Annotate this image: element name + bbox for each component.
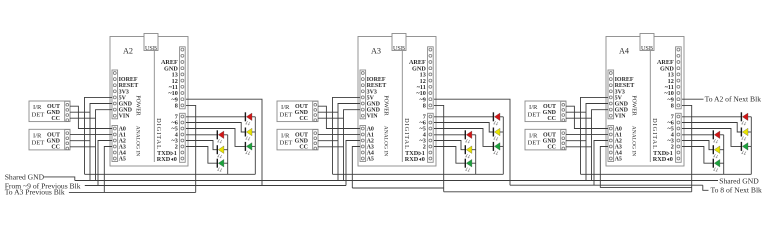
svg-text:8: 8 xyxy=(423,103,426,110)
svg-text:DIGITAL: DIGITAL xyxy=(155,118,162,150)
svg-text:GND: GND xyxy=(47,139,61,145)
svg-text:IOREF: IOREF xyxy=(119,77,138,83)
svg-text:3V3: 3V3 xyxy=(367,89,377,95)
svg-text:VIN: VIN xyxy=(119,114,131,120)
svg-text:3V3: 3V3 xyxy=(119,89,129,95)
svg-text:RESET: RESET xyxy=(367,83,387,89)
svg-text:DET: DET xyxy=(32,111,45,118)
svg-text:OUT: OUT xyxy=(295,133,308,139)
svg-text:USB: USB xyxy=(393,45,405,52)
svg-text:I/R: I/R xyxy=(33,104,42,111)
svg-text:Shared GND: Shared GND xyxy=(5,172,45,181)
svg-text:5V: 5V xyxy=(119,95,127,101)
svg-text:POWER: POWER xyxy=(382,95,388,115)
svg-text:POWER: POWER xyxy=(630,95,636,115)
svg-text:VIN: VIN xyxy=(367,114,379,120)
svg-text:CC: CC xyxy=(51,116,60,122)
svg-text:OUT: OUT xyxy=(47,133,60,139)
svg-text:RXD: RXD xyxy=(157,156,171,163)
svg-text:I/R: I/R xyxy=(529,104,538,111)
svg-text:USB: USB xyxy=(641,45,653,52)
svg-text:I/R: I/R xyxy=(281,104,290,111)
svg-text:0: 0 xyxy=(670,156,673,163)
svg-text:To A3 Previous Blk: To A3 Previous Blk xyxy=(5,187,65,196)
svg-text:ANALOG IN: ANALOG IN xyxy=(134,126,140,156)
svg-text:DET: DET xyxy=(528,140,541,147)
svg-text:A5: A5 xyxy=(367,157,374,163)
svg-text:I/R: I/R xyxy=(33,133,42,140)
svg-text:GND: GND xyxy=(615,102,629,108)
svg-text:To 8 of Next Blk: To 8 of Next Blk xyxy=(711,186,763,195)
svg-text:To A2 of Next Blk: To A2 of Next Blk xyxy=(705,94,762,103)
svg-text:ANALOG IN: ANALOG IN xyxy=(630,126,636,156)
svg-text:VIN: VIN xyxy=(615,114,627,120)
svg-text:A5: A5 xyxy=(615,157,622,163)
svg-text:CC: CC xyxy=(299,145,308,151)
svg-text:A3: A3 xyxy=(371,46,381,55)
svg-text:8: 8 xyxy=(175,103,178,110)
svg-text:POWER: POWER xyxy=(134,95,140,115)
svg-text:CC: CC xyxy=(299,116,308,122)
svg-text:DET: DET xyxy=(280,111,293,118)
svg-text:GND: GND xyxy=(119,108,133,114)
svg-text:5V: 5V xyxy=(615,95,623,101)
svg-text:0: 0 xyxy=(174,156,177,163)
svg-text:GND: GND xyxy=(295,139,309,145)
svg-text:GND: GND xyxy=(367,108,381,114)
svg-text:USB: USB xyxy=(145,45,157,52)
svg-text:RESET: RESET xyxy=(615,83,635,89)
svg-text:DET: DET xyxy=(32,140,45,147)
svg-text:DET: DET xyxy=(280,140,293,147)
svg-text:A4: A4 xyxy=(619,46,629,55)
svg-text:A5: A5 xyxy=(119,157,126,163)
svg-text:3V3: 3V3 xyxy=(615,89,625,95)
svg-text:5V: 5V xyxy=(367,95,375,101)
svg-text:DIGITAL: DIGITAL xyxy=(403,118,410,150)
svg-text:I/R: I/R xyxy=(281,133,290,140)
svg-text:IOREF: IOREF xyxy=(615,77,634,83)
svg-text:RXD: RXD xyxy=(405,156,419,163)
svg-text:CC: CC xyxy=(547,116,556,122)
svg-text:RESET: RESET xyxy=(119,83,139,89)
svg-text:GND: GND xyxy=(367,102,381,108)
svg-text:CC: CC xyxy=(547,145,556,151)
svg-text:DET: DET xyxy=(528,111,541,118)
svg-text:DIGITAL: DIGITAL xyxy=(651,118,658,150)
svg-text:OUT: OUT xyxy=(543,133,556,139)
svg-text:0: 0 xyxy=(422,156,425,163)
svg-text:8: 8 xyxy=(671,103,674,110)
svg-text:CC: CC xyxy=(51,145,60,151)
svg-text:ANALOG IN: ANALOG IN xyxy=(382,126,388,156)
svg-text:I/R: I/R xyxy=(529,133,538,140)
svg-text:GND: GND xyxy=(119,102,133,108)
svg-text:IOREF: IOREF xyxy=(367,77,386,83)
svg-text:RXD: RXD xyxy=(653,156,667,163)
svg-text:GND: GND xyxy=(543,139,557,145)
svg-text:Shared GND: Shared GND xyxy=(719,176,759,185)
svg-text:A2: A2 xyxy=(123,46,133,55)
svg-text:GND: GND xyxy=(615,108,629,114)
